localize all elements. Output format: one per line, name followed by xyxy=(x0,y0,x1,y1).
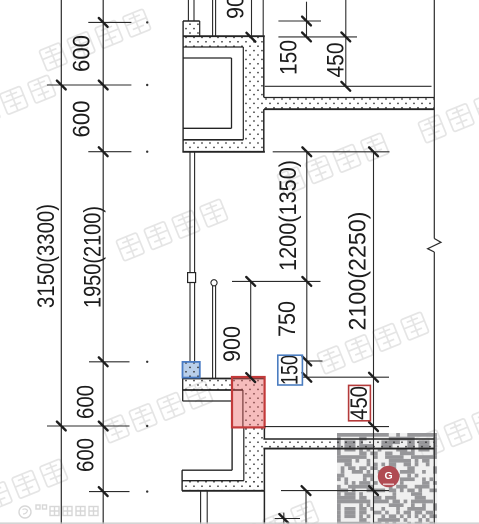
tick xyxy=(246,373,255,382)
dim 900 mid vertical xyxy=(250,281,252,378)
svg-text:600: 600 xyxy=(69,35,96,72)
middle window glazing lines xyxy=(189,152,191,362)
wall line: left wall face lower xyxy=(181,470,183,491)
wall line: sill bottom line xyxy=(183,389,244,391)
ext y361 xyxy=(307,360,323,362)
watermark 图图规范 xyxy=(207,501,319,524)
wall line: wall top outer line xyxy=(183,35,265,37)
dim 150 vertical xyxy=(306,2,308,37)
tick xyxy=(302,277,311,286)
watermark 图图规范 xyxy=(0,459,68,521)
ext y86 xyxy=(265,85,432,87)
wall line: wall outer face upper a xyxy=(263,36,265,98)
tick xyxy=(341,33,350,42)
ext y427 xyxy=(265,426,389,428)
hatch: lower right floor slab xyxy=(263,439,434,449)
watermark 图图规范 xyxy=(277,133,389,195)
left dimension line outer (3150) xyxy=(60,0,62,524)
dim vertical x284 bottom xyxy=(283,513,285,524)
tick xyxy=(341,82,350,91)
ext y37 xyxy=(278,36,357,38)
dim 2100 vertical xyxy=(373,152,375,524)
tick xyxy=(99,487,108,496)
ext y518 xyxy=(275,518,300,520)
right boundary line lower xyxy=(433,252,435,524)
watermark 图图规范 xyxy=(39,9,151,71)
tick xyxy=(302,33,311,42)
upper window glazing lines xyxy=(187,0,189,21)
left dimension line inner (600 chain) xyxy=(102,0,104,524)
tick xyxy=(302,357,311,366)
red highlight: wall corner zone xyxy=(232,377,265,427)
QR code xyxy=(337,433,437,524)
wall line: band2 top line xyxy=(183,139,243,141)
tick xyxy=(99,147,108,156)
wall line: wall outer face upper b xyxy=(263,109,265,152)
wall line: left wall face at sill xyxy=(182,379,184,402)
svg-text:1950(2100): 1950(2100) xyxy=(80,206,107,308)
wall line: band1 bottom line xyxy=(183,46,243,48)
tick xyxy=(57,422,66,431)
window transom block xyxy=(188,273,196,283)
wall line: lower slab bottom line xyxy=(263,448,434,450)
middle railing lines xyxy=(212,286,214,379)
wall line: pier box top xyxy=(183,20,200,22)
dim 1200 vertical xyxy=(306,152,308,377)
watermark 图图规范 xyxy=(416,396,479,458)
bottom edge artifact xyxy=(0,522,479,524)
svg-text:2100(2250): 2100(2250) xyxy=(345,212,372,331)
svg-text:1200(1350): 1200(1350) xyxy=(275,160,302,271)
red box around 450 xyxy=(349,385,371,420)
tick xyxy=(247,33,256,42)
wall line: band3 bottom line xyxy=(182,490,264,492)
tick xyxy=(369,373,378,382)
wall line: wall core inner face upper xyxy=(242,47,244,140)
wall face extension top xyxy=(262,0,264,36)
QR centre red logo xyxy=(378,466,400,488)
ext line y22 xyxy=(88,21,131,23)
svg-text:900: 900 xyxy=(219,326,246,362)
svg-text:3150(3300): 3150(3300) xyxy=(33,204,60,308)
wall line: niche right face xyxy=(231,58,233,128)
tick xyxy=(302,17,311,26)
svg-text:450: 450 xyxy=(346,386,373,420)
wall line: niche bottom line xyxy=(183,127,231,129)
svg-text:450: 450 xyxy=(323,43,350,78)
blue highlight: sill block xyxy=(183,362,200,378)
tick xyxy=(99,422,108,431)
right boundary line upper xyxy=(433,0,435,239)
svg-text:150: 150 xyxy=(276,40,303,75)
tick xyxy=(99,18,108,27)
ext line y85 xyxy=(47,84,131,86)
wall line: niche top line xyxy=(183,57,231,59)
tick xyxy=(302,147,311,156)
watermark 图图规范 xyxy=(0,75,56,137)
hatch: lower vertical wall core xyxy=(244,427,265,490)
tick xyxy=(57,81,66,90)
tick xyxy=(369,486,378,495)
wall line: slab bottom line xyxy=(264,108,434,110)
hatch: lower wall band xyxy=(182,481,264,491)
ext line y152 xyxy=(88,151,131,153)
tick xyxy=(99,357,108,366)
hatch: upper right floor slab xyxy=(264,98,434,110)
ext line y426 xyxy=(47,425,130,427)
wall line: slab top line xyxy=(264,97,434,99)
bottom-left logo xyxy=(19,505,98,518)
watermark 图图规范 xyxy=(418,81,479,143)
wall line: below-sill line xyxy=(183,400,233,402)
tick xyxy=(99,81,108,90)
break symbol xyxy=(428,239,441,253)
dim vertical x306 bottom xyxy=(305,491,307,524)
wall line: lower niche right face xyxy=(231,427,233,470)
dim line y152 xyxy=(273,151,390,153)
hatch: top wall band xyxy=(183,36,265,47)
wall line: lower slab top line xyxy=(263,438,434,440)
hatch: top-left pier box xyxy=(183,21,200,36)
watermark 图图规范 xyxy=(116,199,228,261)
ext y377 xyxy=(303,376,389,378)
tick xyxy=(302,373,311,382)
hatch: second wall band xyxy=(183,140,265,152)
svg-text:600: 600 xyxy=(73,385,100,419)
hatch: upper vertical wall core xyxy=(243,47,263,140)
dim 900 top vertical xyxy=(251,0,253,37)
ext y281 xyxy=(232,280,321,282)
ext y490 xyxy=(281,490,389,492)
wall line: band3 top line xyxy=(182,480,244,482)
svg-text:750: 750 xyxy=(274,301,301,337)
wall line: left wall face upper xyxy=(182,21,184,152)
tick xyxy=(369,422,378,431)
tick xyxy=(302,486,311,495)
ext line y492 xyxy=(89,491,130,493)
wall line: wall outer face lower b xyxy=(263,449,265,491)
wall line: pier box right xyxy=(199,21,201,36)
svg-text:600: 600 xyxy=(73,438,100,472)
wall line: wall outer face lower a xyxy=(263,427,265,439)
wall line: wall face below band3 xyxy=(263,491,265,524)
wall line: wall core inner face lower xyxy=(243,427,245,480)
wall line: band2 bottom line xyxy=(182,151,265,153)
wall line: sill top line xyxy=(183,378,265,380)
tick xyxy=(246,277,255,286)
dim 450 vertical xyxy=(345,0,347,86)
hatch: window sill band xyxy=(183,379,265,391)
watermark 图图规范 xyxy=(317,312,429,374)
watermark 图图规范 xyxy=(101,381,213,443)
wall line: lower niche bottom line xyxy=(182,469,232,471)
lower window glazing lines xyxy=(200,491,202,524)
svg-text:G: G xyxy=(385,470,393,482)
svg-text:600: 600 xyxy=(69,101,96,138)
svg-text:900: 900 xyxy=(223,0,250,19)
ext line y362 xyxy=(89,361,130,363)
hatch: wall core in red zone xyxy=(243,390,265,427)
wall line: wall inner face in red zone xyxy=(242,390,244,427)
upper railing lines xyxy=(212,0,214,36)
svg-text:150: 150 xyxy=(277,355,304,385)
ext y21 xyxy=(278,20,321,22)
tick xyxy=(369,147,378,156)
blue box around 150 xyxy=(278,355,303,385)
railing post circle xyxy=(211,280,217,286)
tick xyxy=(279,514,288,523)
